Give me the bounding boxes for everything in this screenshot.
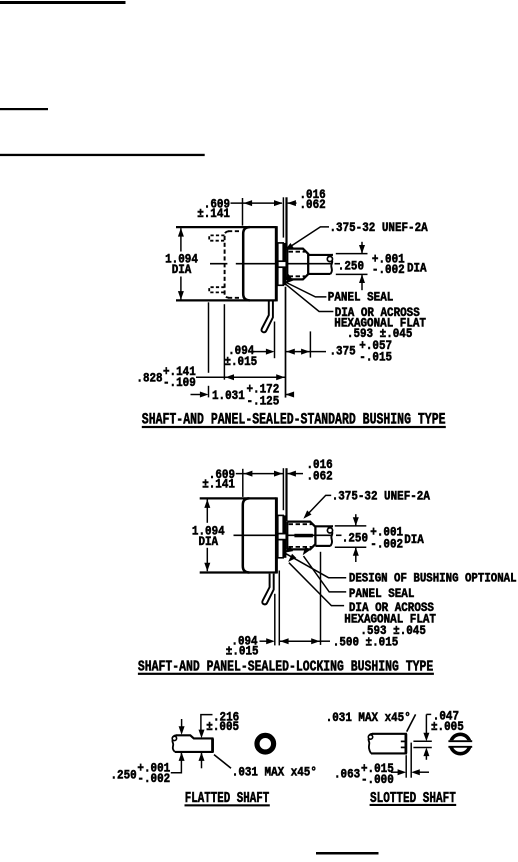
d3 flatted shaft outline	[175, 735, 213, 752]
d1 body front-left rounded edge	[243, 227, 250, 300]
d3 slotted slot line bottom	[401, 746, 406, 748]
d2 body bottom line	[200, 571, 277, 573]
svg-text:-.002: -.002	[137, 772, 170, 786]
d1 dim .250 ext bottom	[336, 273, 368, 275]
d3 slotted shaft right face	[405, 734, 408, 754]
d3 slotted end view slot	[448, 740, 473, 747]
d1 dim 1.094 line	[180, 228, 182, 251]
d2 bushing thread dashed bottom	[289, 546, 312, 548]
svg-text:1.031: 1.031	[212, 389, 245, 403]
d1 shaft break loop	[327, 256, 332, 261]
d3 flatted chamfer leader	[214, 755, 231, 769]
d1 dim 1.031 right arrow	[286, 394, 295, 396]
d1 terminal lug	[261, 302, 272, 333]
d3 slotted chamfer leader	[407, 714, 416, 731]
svg-text:.250: .250	[338, 259, 364, 273]
d3 flatted title underline	[185, 804, 270, 806]
d2 ext line seal-left	[274, 594, 276, 646]
d1 terminal slot lower (hidden)	[209, 287, 224, 292]
d1 panel seal dark band	[283, 243, 286, 285]
svg-text:-.002: -.002	[370, 538, 403, 552]
d1 ext line panel-right lower	[285, 287, 287, 398]
d3 flatted dim .216 leader	[201, 715, 213, 731]
d1 dim .828 line	[196, 376, 286, 378]
svg-text:.031 MAX x45°: .031 MAX x45°	[232, 766, 317, 780]
d3 slotted end view circle	[451, 734, 470, 753]
d3 slotted shaft break	[369, 734, 373, 736]
d2 panel left face	[282, 468, 284, 510]
d1 centerline	[210, 263, 227, 265]
d2 dim .250 line+arrows	[355, 514, 357, 525]
d2 centerline	[234, 534, 333, 536]
d1 dim .250 ext top	[336, 253, 368, 255]
d1 dim .250 line+arrows	[361, 242, 363, 254]
d1 shaft collar through seal	[278, 261, 287, 267]
d2 dim .016 tail	[288, 473, 303, 475]
d1 leader panel seal	[283, 281, 326, 297]
d1 bushing left face	[286, 249, 288, 280]
svg-text:PANEL SEAL: PANEL SEAL	[349, 587, 415, 601]
d3 flatted dim .250 arrows	[181, 719, 183, 727]
svg-text:PANEL SEAL: PANEL SEAL	[328, 291, 394, 305]
d3 flatted dim .216 arrows	[199, 730, 205, 739]
d2 dim .250 ext bottom	[335, 546, 367, 548]
d2 dim 1.094 line	[206, 500, 208, 523]
d2 panel seal dark band	[283, 515, 286, 557]
d2 title underline	[138, 673, 434, 675]
svg-text:-.125: -.125	[247, 395, 280, 409]
svg-text:.828: .828	[136, 371, 162, 385]
svg-text:.062: .062	[300, 198, 326, 212]
d3 slotted shaft outline	[371, 734, 406, 754]
d2 shaft break loop	[327, 528, 332, 533]
svg-text:DIA: DIA	[199, 535, 219, 549]
d1 ext line body-left	[242, 198, 244, 226]
top rule 2	[0, 108, 48, 110]
d1 bushing hex outline	[287, 249, 308, 280]
d1 ext line body-rear	[223, 304, 225, 380]
d1 panel seal	[278, 243, 283, 285]
d2 body right face	[275, 497, 278, 573]
svg-text:DESIGN OF BUSHING OPTIONAL: DESIGN OF BUSHING OPTIONAL	[349, 571, 517, 585]
svg-text:-.000: -.000	[361, 773, 394, 787]
d1 ext line bushing-end	[309, 331, 311, 357]
d3 slotted shaft break loop	[368, 735, 372, 739]
svg-text:±.005: ±.005	[431, 720, 464, 734]
d1 dim .375 line	[286, 351, 311, 353]
d2 dim .609 arrow left	[244, 471, 253, 477]
d1 dim 1.094 arrows	[178, 228, 184, 237]
d2 dim .500 line	[279, 640, 320, 642]
d1 shaft break curve	[328, 255, 333, 257]
d1 terminal slot upper (hidden)	[209, 235, 224, 240]
d2 terminal lug	[262, 574, 273, 605]
svg-text:±.015: ±.015	[224, 355, 257, 369]
d1 panel right face	[285, 197, 287, 248]
svg-text:DIA: DIA	[407, 262, 427, 276]
d2 dim .609 arrow right	[274, 471, 283, 477]
d2 dim .094 line	[260, 640, 268, 642]
svg-text:.375: .375	[330, 344, 356, 358]
d2 body top line	[200, 497, 277, 499]
svg-text:±.141: ±.141	[202, 478, 235, 492]
d1 dim .094 line	[254, 351, 268, 353]
d2 leader hex flat	[289, 563, 344, 606]
d2 thread leader	[307, 495, 331, 514]
d1 ext line seal-left	[274, 322, 276, 359]
bottom center rule	[316, 852, 379, 855]
svg-text:.250: .250	[111, 769, 137, 783]
d1 shaft bottom line	[308, 273, 330, 275]
svg-text:.375-32 UNEF-2A: .375-32 UNEF-2A	[330, 221, 429, 235]
d3 slotted dim .063 line	[391, 771, 399, 773]
d1 ext line terminal-rear	[208, 302, 210, 373]
d1 dim 1.031 left arrow	[191, 394, 202, 396]
svg-text:SHAFT-AND PANEL-SEALED-LOCKING: SHAFT-AND PANEL-SEALED-LOCKING BUSHING T…	[138, 657, 433, 675]
d3 slotted dim .047 ext	[413, 740, 431, 742]
d1 body right face	[275, 226, 278, 301]
svg-text:.063: .063	[334, 768, 360, 782]
d2 dim .609 line	[236, 473, 283, 475]
svg-text:DIA: DIA	[404, 533, 424, 547]
svg-text:.375-32 UNEF-2A: .375-32 UNEF-2A	[332, 489, 431, 503]
d3 slotted dim .063 ext	[405, 755, 407, 778]
d3 flatted shaft break	[173, 735, 177, 737]
d1 title underline	[142, 426, 446, 428]
d1 dim .609 arrow right	[274, 200, 283, 206]
d1 body rear dashed top	[228, 230, 242, 232]
d2 bushing left face	[286, 522, 288, 550]
d3 slotted slot line top	[401, 740, 406, 742]
svg-text:.250: .250	[342, 532, 368, 546]
svg-text:±.005: ±.005	[206, 720, 239, 734]
d2 shaft collar through seal	[278, 534, 287, 540]
d3 flatted shaft break loop	[172, 736, 176, 740]
d2 shaft top line	[315, 525, 333, 527]
d1 dim .609 arrow left	[244, 200, 253, 206]
d1 body rear dashed bottom	[228, 297, 242, 299]
d2 ext line body-left	[242, 469, 244, 497]
svg-text:.500 ±.015: .500 ±.015	[333, 635, 399, 649]
d2 dim 1.094 arrows	[204, 499, 210, 508]
top rule 1	[0, 1, 126, 4]
svg-text:-.109: -.109	[163, 376, 196, 390]
d1 body rear dashed edge	[225, 231, 229, 297]
d3 slotted dim .047 line	[425, 714, 427, 735]
d2 dim .250 ext top	[335, 525, 367, 527]
d2 shaft bottom line	[315, 545, 330, 547]
d1 leader hex flat	[286, 284, 334, 311]
d2 ext line bushing-end	[320, 552, 322, 645]
d2 shaft break curve	[328, 526, 333, 528]
svg-text:DIA: DIA	[172, 263, 192, 277]
d2 bushing thread dashed top	[289, 523, 312, 525]
d2 bushing hex outline	[287, 522, 315, 550]
d1 thread leader	[289, 227, 329, 247]
d2 panel seal	[278, 515, 283, 557]
d2 ext line seal-right	[278, 571, 280, 646]
d2 leader panel seal	[304, 556, 347, 592]
d3 flatted end view ring	[257, 735, 274, 752]
svg-text:.031 MAX x45°: .031 MAX x45°	[326, 711, 411, 725]
d1 shaft top line	[308, 254, 333, 256]
d1 dim .609 line	[231, 202, 282, 204]
d1 bushing thread dashed bottom	[289, 275, 306, 277]
svg-text:-.002: -.002	[372, 263, 405, 277]
d1 panel left face	[282, 197, 284, 237]
d1 body top line	[176, 226, 277, 228]
svg-text:-.015: -.015	[359, 350, 392, 364]
d2 body front-left rounded edge	[243, 498, 250, 572]
d2 collet slot bar	[294, 534, 313, 538]
d3 flatted shaft right face	[211, 738, 214, 752]
d1 dim .016 tail	[288, 202, 297, 204]
top rule 3	[0, 154, 205, 156]
svg-text:±.141: ±.141	[197, 207, 230, 221]
d1 bushing thread dashed top	[289, 251, 306, 253]
d3 slotted title underline	[370, 804, 457, 806]
d2 leader design of bushing	[285, 553, 346, 578]
d3 flatted dim .250 leader	[171, 753, 182, 773]
d2 panel right face	[285, 468, 287, 521]
svg-text:.062: .062	[307, 469, 333, 483]
d1 body bottom line	[176, 299, 277, 301]
